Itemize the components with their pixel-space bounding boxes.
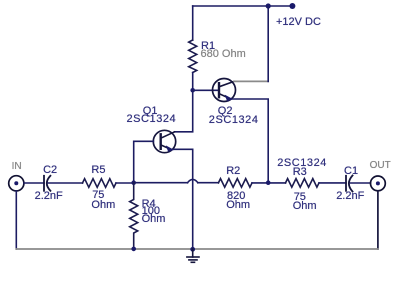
wire junction to hop, hop over ground riser, to R2 [134, 179, 219, 182]
capacitor C1 label [344, 166, 358, 177]
wire Q2 collector to +12V riser (gray) [234, 80, 268, 82]
resistor R5 75 Ohm [83, 179, 117, 188]
transistor Q1 2SC1324 [153, 130, 175, 152]
resistor R1 680 Ohm [189, 40, 197, 73]
wire C2 to R5 [48, 182, 83, 184]
wire riser x268 up to top rail [267, 6, 269, 81]
node +12V terminal dot [289, 3, 295, 9]
connector OUT terminal [371, 176, 386, 191]
wire R1 bottom lead to Q2 base junction [192, 73, 194, 91]
wire Q1 base [134, 141, 154, 182]
wire Q1 emitter to ground riser [173, 149, 193, 249]
wire R3 to C1 [319, 182, 346, 184]
capacitor C2 2.2nF [44, 176, 50, 191]
transistor Q2 2SC1324 [213, 79, 236, 102]
resistor R5 value label line2 [91, 200, 115, 211]
ground [187, 249, 199, 262]
resistor R4 value label line2 [142, 214, 166, 225]
resistor R3 value label line2 [293, 201, 317, 212]
resistor R5 label [91, 165, 105, 176]
connector IN terminal [9, 176, 24, 191]
connector IN label (gray) [12, 161, 22, 172]
wire R2 to emitter junction [252, 182, 286, 184]
wire junction down to Q1 collector bend [175, 90, 193, 132]
capacitor C2 label [43, 165, 57, 176]
resistor R2 label [226, 166, 240, 177]
resistor R3 label [293, 167, 307, 178]
node junction R4 bottom rail [131, 247, 136, 252]
wire R1 top lead from rail [192, 6, 194, 40]
capacitor C1 value label [336, 191, 364, 202]
node junction R5 / R4 / Q1 base [131, 180, 136, 185]
node junction top rail / Q2 collector [266, 3, 271, 8]
wire Q2 base [193, 89, 219, 91]
wire Q2 emitter down to R2/R3 junction [232, 99, 268, 183]
resistor R3 value label line1 [294, 192, 306, 203]
part number label above R3 [277, 158, 327, 169]
resistor R4 value label line1 [142, 206, 160, 217]
resistor R2 820 Ohm [218, 179, 252, 188]
transistor Q1 part number label [127, 114, 177, 125]
node +12V DC label [276, 17, 321, 28]
resistor R1 label [201, 41, 215, 52]
wire bottom rail (gray) [16, 248, 378, 250]
node junction ground riser bottom rail [190, 247, 195, 252]
resistor R4 100 Ohm [130, 183, 138, 249]
capacitor C2 value label [35, 191, 63, 202]
wire C1 to OUT [351, 182, 371, 184]
resistor R5 value label line1 [92, 190, 104, 201]
wire top rail [193, 5, 293, 7]
capacitor C1 2.2nF [346, 176, 353, 192]
resistor R4 label [142, 199, 156, 210]
wire IN down to bottom rail [15, 191, 17, 249]
resistor R1 value label (gray) [201, 49, 246, 60]
node junction R1 / Q2 base / Q1 collector [190, 88, 195, 93]
transistor Q1 label [143, 106, 158, 117]
node junction R2 / R3 / Q2 emitter [266, 180, 271, 185]
transistor Q2 label [218, 106, 233, 117]
resistor R3 75 Ohm [286, 179, 320, 188]
wire IN to C2 [24, 182, 44, 184]
resistor R2 value label line1 [227, 191, 245, 202]
connector OUT label (gray) [370, 160, 391, 171]
wire OUT down to bottom rail [377, 191, 379, 249]
resistor R2 value label line2 [226, 200, 250, 211]
wire R5 to base junction [116, 182, 134, 184]
transistor Q2 part number label [209, 115, 259, 126]
